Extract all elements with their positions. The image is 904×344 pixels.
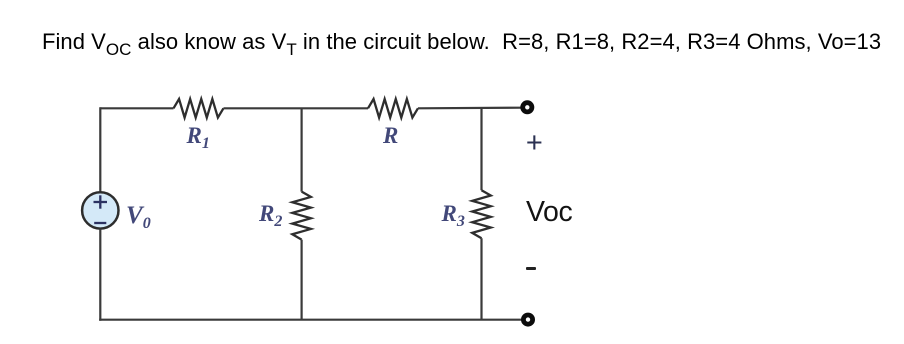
wire left lower (99, 229, 101, 321)
label R (383, 124, 398, 147)
resistor R1 (174, 99, 224, 118)
label R2 (259, 202, 282, 225)
wire top-left segment (100, 107, 173, 109)
wire R3 branch lower (480, 238, 482, 320)
wire top-right segment (418, 107, 522, 110)
resistor R (368, 99, 418, 118)
title text (42, 31, 881, 53)
resistor R3 (472, 190, 491, 238)
wire top-middle segment (223, 107, 368, 109)
polarity plus (526, 129, 543, 158)
label R3 (442, 202, 465, 225)
wire left upper (99, 107, 101, 192)
wire middle branch lower (301, 240, 303, 320)
voltage source V0 (82, 192, 118, 228)
wire bottom (99, 319, 521, 321)
wire middle branch upper (301, 108, 303, 191)
label Voc (526, 198, 572, 227)
label R1 (187, 124, 210, 147)
polarity minus (526, 267, 536, 271)
terminal node bottom (523, 315, 532, 324)
terminal node top (523, 103, 532, 112)
resistor R2 (292, 192, 311, 240)
label V0 (126, 203, 151, 228)
wire R3 branch upper (480, 108, 482, 191)
